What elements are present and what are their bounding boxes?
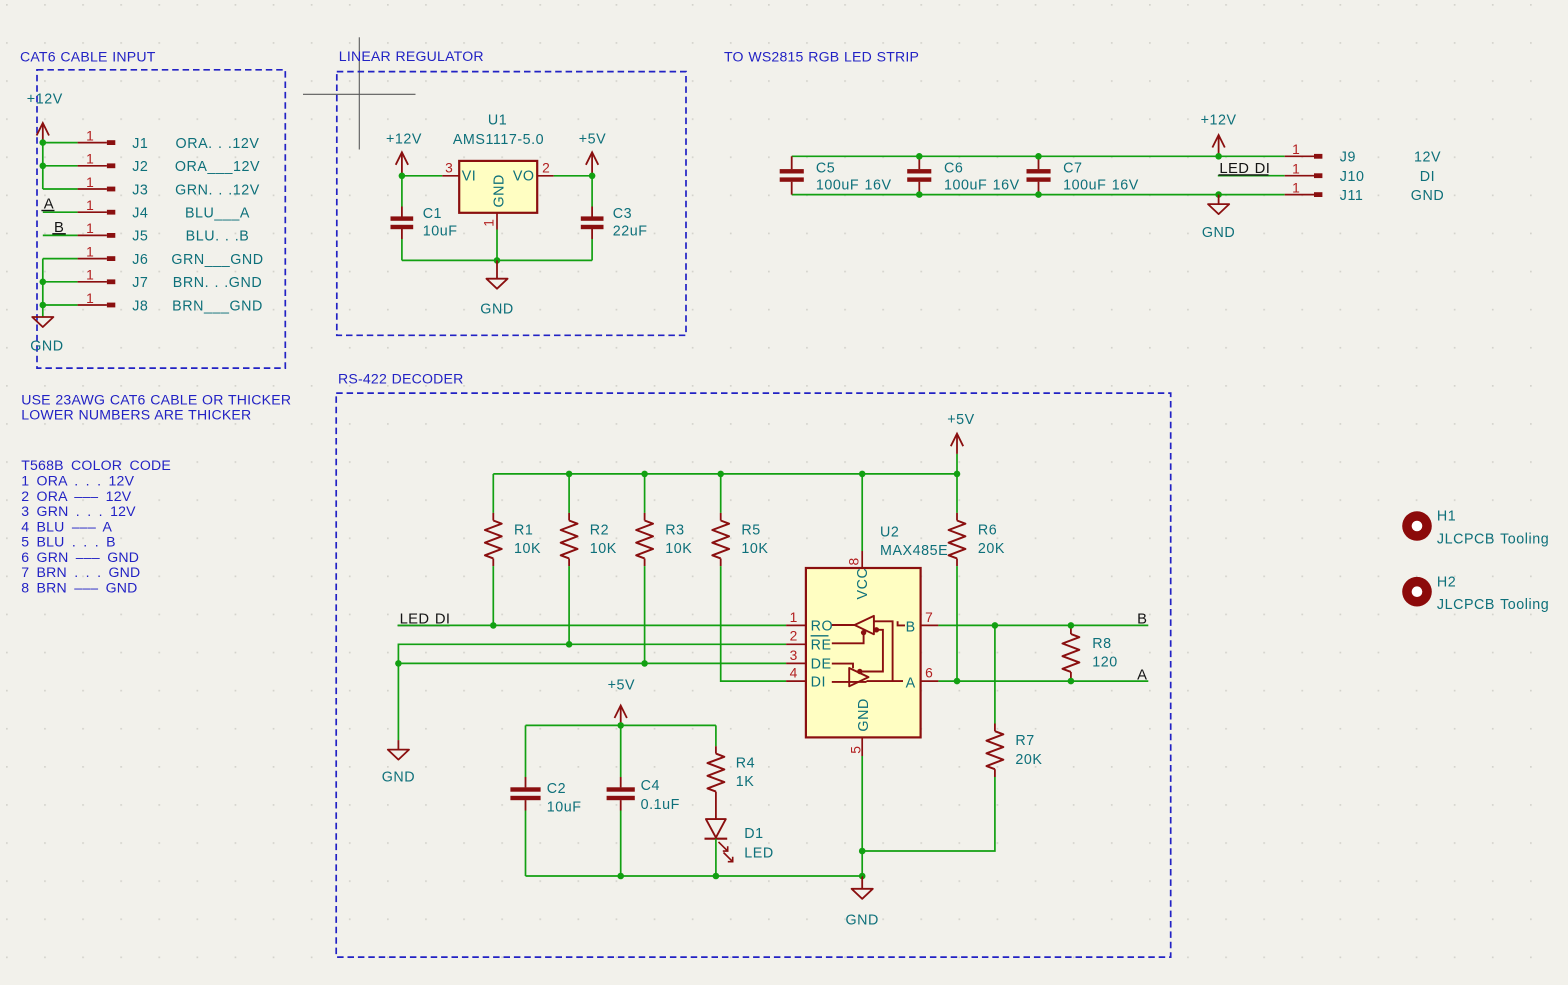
capacitor C2 bbox=[510, 777, 540, 811]
capacitor C6 bbox=[907, 156, 931, 194]
junction bbox=[566, 641, 573, 648]
junction bbox=[494, 257, 501, 264]
wire R6 top lead bbox=[956, 474, 958, 513]
svg-text:GRN. . .12V: GRN. . .12V bbox=[175, 182, 260, 198]
svg-text:A: A bbox=[1137, 667, 1147, 683]
svg-text:100uF 16V: 100uF 16V bbox=[944, 177, 1020, 193]
svg-text:7: 7 bbox=[925, 610, 933, 625]
wire C1 to bottom bbox=[401, 239, 403, 260]
junction bbox=[859, 848, 866, 855]
svg-text:1: 1 bbox=[86, 198, 94, 213]
power symbol +12V bbox=[396, 152, 408, 176]
wire R6 bottom to A row bbox=[956, 566, 958, 681]
overline on RE bbox=[811, 635, 829, 637]
connector J11 bbox=[1285, 192, 1323, 197]
connector J4 bbox=[78, 210, 116, 215]
capacitor C4 bbox=[607, 777, 635, 811]
power symbol +5V bbox=[951, 434, 963, 474]
mounting hole H2 bbox=[1402, 577, 1432, 607]
pin 1 of U1 bbox=[496, 213, 498, 230]
wire R1 top lead bbox=[492, 474, 494, 513]
wire R3 bottom to DE row bbox=[644, 566, 646, 663]
svg-text:GND: GND bbox=[856, 698, 872, 731]
svg-text:J7: J7 bbox=[132, 275, 148, 291]
wire R1 bottom to RO row bbox=[492, 566, 494, 625]
node A wire bbox=[43, 211, 78, 213]
node B wire bbox=[43, 234, 78, 236]
svg-text:GND: GND bbox=[1202, 225, 1235, 241]
wire VO to +5V bbox=[554, 175, 592, 177]
svg-text:J8: J8 bbox=[132, 298, 148, 314]
junction bbox=[40, 302, 47, 309]
receiver buffer inside U2 bbox=[832, 616, 874, 634]
svg-text:3: 3 bbox=[790, 648, 798, 663]
ground bbox=[486, 260, 507, 288]
pin 3 of U2 DE bbox=[786, 662, 806, 664]
wire C2 branch bbox=[525, 725, 527, 777]
wire bbox=[43, 165, 78, 167]
svg-text:20K: 20K bbox=[1015, 752, 1042, 768]
junction bbox=[641, 471, 648, 478]
svg-text:100uF 16V: 100uF 16V bbox=[1063, 177, 1139, 193]
resistor R5 10K bbox=[712, 513, 729, 566]
svg-text:2: 2 bbox=[542, 160, 550, 175]
resistor R2 10K bbox=[561, 513, 578, 566]
svg-text:R4: R4 bbox=[736, 756, 755, 772]
svg-text:GND: GND bbox=[845, 913, 878, 929]
junction bbox=[954, 678, 961, 685]
junction bbox=[641, 660, 648, 667]
svg-text:GND: GND bbox=[480, 301, 513, 317]
svg-text:4: 4 bbox=[790, 666, 798, 681]
wire B row to R7 bbox=[994, 625, 996, 723]
svg-text:RE: RE bbox=[811, 638, 832, 654]
dashed box RS-422 DECODER bbox=[336, 393, 1170, 957]
wire R3 top lead bbox=[644, 474, 646, 513]
wire D1 to bottom bbox=[715, 839, 717, 876]
ground bbox=[32, 317, 53, 327]
junction bbox=[40, 279, 47, 286]
svg-text:1 ORA . . . 12V: 1 ORA . . . 12V bbox=[21, 473, 134, 489]
svg-text:DI: DI bbox=[1420, 169, 1435, 185]
svg-text:J5: J5 bbox=[132, 229, 148, 245]
junction bbox=[713, 873, 720, 880]
svg-text:D1: D1 bbox=[744, 826, 763, 842]
svg-text:R2: R2 bbox=[590, 523, 609, 539]
svg-text:12V: 12V bbox=[1414, 150, 1441, 166]
svg-text:R1: R1 bbox=[514, 523, 533, 539]
wire VCC from rail bbox=[861, 474, 863, 551]
pin 2 of U1 bbox=[537, 175, 554, 177]
svg-text:120: 120 bbox=[1092, 655, 1118, 671]
svg-text:BLU___A: BLU___A bbox=[185, 206, 250, 222]
svg-text:J2: J2 bbox=[132, 159, 148, 175]
junction bbox=[1035, 153, 1042, 160]
svg-text:1: 1 bbox=[86, 291, 94, 306]
wire C3 to bottom bbox=[591, 239, 593, 260]
cursor crosshair bbox=[303, 37, 416, 149]
wire LED DI to J10 bbox=[1218, 175, 1285, 177]
junction bbox=[717, 471, 724, 478]
svg-text:BRN. . .GND: BRN. . .GND bbox=[173, 275, 262, 291]
svg-text:1: 1 bbox=[790, 610, 798, 625]
capacitor C3 bbox=[581, 207, 604, 240]
pin 3 of U1 bbox=[442, 175, 459, 177]
svg-text:+12V: +12V bbox=[27, 92, 63, 108]
wire bbox=[43, 281, 78, 283]
wire 12V rail bbox=[792, 155, 1285, 157]
wire C4 to bottom bbox=[620, 811, 622, 877]
wire R5 top lead bbox=[720, 474, 722, 513]
junction bbox=[589, 173, 596, 180]
wire R7 bottom to GND net bbox=[862, 777, 995, 851]
resistor R6 20K bbox=[949, 513, 966, 566]
svg-text:J1: J1 bbox=[132, 136, 148, 152]
svg-text:B: B bbox=[1137, 611, 1147, 627]
ground bbox=[1208, 195, 1229, 215]
svg-text:A: A bbox=[906, 675, 916, 691]
capacitor C5 bbox=[780, 156, 804, 194]
svg-text:R6: R6 bbox=[978, 523, 997, 539]
svg-text:C6: C6 bbox=[944, 161, 963, 177]
ground bbox=[852, 876, 873, 899]
svg-text:MAX485E: MAX485E bbox=[880, 543, 948, 559]
mounting hole H1 bbox=[1402, 511, 1432, 541]
svg-text:J3: J3 bbox=[132, 182, 148, 198]
junction bbox=[1215, 153, 1222, 160]
junction bbox=[954, 471, 961, 478]
svg-text:8: 8 bbox=[847, 558, 862, 566]
resistor R1 10K bbox=[485, 513, 502, 566]
svg-text:BRN___GND: BRN___GND bbox=[172, 298, 263, 314]
svg-text:1: 1 bbox=[86, 128, 94, 143]
svg-text:LINEAR REGULATOR: LINEAR REGULATOR bbox=[339, 48, 484, 64]
svg-text:0.1uF: 0.1uF bbox=[641, 797, 680, 813]
svg-text:J10: J10 bbox=[1340, 169, 1365, 185]
wire U1 GND down bbox=[496, 230, 498, 261]
svg-text:VCC: VCC bbox=[855, 568, 871, 600]
svg-text:DE: DE bbox=[811, 657, 832, 673]
junction bbox=[395, 660, 402, 667]
svg-text:C3: C3 bbox=[613, 206, 632, 222]
svg-text:1: 1 bbox=[86, 268, 94, 283]
junction bbox=[40, 139, 47, 146]
wire R2 top lead bbox=[568, 474, 570, 513]
junction bbox=[566, 471, 573, 478]
wire GND rail bbox=[792, 194, 1285, 196]
wire bottom rail of cap bank bbox=[526, 875, 863, 877]
power symbol +5V bbox=[586, 152, 598, 176]
svg-text:3: 3 bbox=[445, 160, 453, 175]
svg-text:DI: DI bbox=[811, 674, 826, 690]
connector J7 bbox=[78, 279, 116, 284]
junction bbox=[1068, 678, 1075, 685]
svg-text:1: 1 bbox=[1292, 180, 1300, 195]
svg-text:J11: J11 bbox=[1340, 188, 1364, 204]
connector J9 bbox=[1285, 154, 1323, 159]
svg-text:+5V: +5V bbox=[608, 678, 636, 694]
junction bbox=[916, 191, 923, 198]
svg-text:C5: C5 bbox=[816, 161, 835, 177]
svg-text:5 BLU . . . B: 5 BLU . . . B bbox=[21, 534, 116, 550]
svg-text:TO WS2815 RGB LED STRIP: TO WS2815 RGB LED STRIP bbox=[724, 49, 919, 65]
svg-text:2: 2 bbox=[790, 629, 798, 644]
wire R4 branch bbox=[715, 725, 717, 746]
connector J6 bbox=[78, 256, 116, 261]
svg-text:RO: RO bbox=[811, 619, 834, 635]
wire +5V top rail of cap bank bbox=[526, 724, 716, 726]
wire R2 bottom to RE row bbox=[568, 566, 570, 644]
wire C3 branch bbox=[591, 176, 593, 207]
svg-text:BLU. . .B: BLU. . .B bbox=[186, 229, 250, 245]
capacitor C1 bbox=[391, 207, 414, 240]
capacitor C7 bbox=[1027, 156, 1051, 194]
svg-text:5: 5 bbox=[849, 746, 864, 754]
junction bbox=[859, 873, 866, 880]
svg-text:JLCPCB Tooling: JLCPCB Tooling bbox=[1437, 597, 1549, 613]
svg-text:1: 1 bbox=[1292, 162, 1300, 177]
dashed box CAT6 CABLE INPUT bbox=[37, 70, 285, 368]
driver buffer inside U2 bbox=[832, 668, 869, 686]
svg-text:R8: R8 bbox=[1092, 636, 1111, 652]
svg-text:+5V: +5V bbox=[579, 132, 607, 148]
svg-text:CAT6 CABLE INPUT: CAT6 CABLE INPUT bbox=[20, 49, 156, 65]
svg-text:GRN___GND: GRN___GND bbox=[171, 252, 263, 268]
junction bbox=[1215, 191, 1222, 198]
connector J2 bbox=[78, 163, 116, 168]
ground bbox=[388, 740, 409, 760]
svg-text:100uF 16V: 100uF 16V bbox=[816, 177, 892, 193]
wire DE row bbox=[398, 662, 786, 664]
svg-text:+12V: +12V bbox=[1201, 113, 1237, 129]
junction bbox=[1035, 191, 1042, 198]
svg-text:1: 1 bbox=[86, 244, 94, 259]
svg-text:GND: GND bbox=[492, 174, 508, 207]
junction bbox=[916, 153, 923, 160]
svg-text:+5V: +5V bbox=[947, 412, 975, 428]
junction bbox=[40, 163, 47, 170]
svg-text:10K: 10K bbox=[590, 541, 617, 557]
junction bbox=[992, 622, 999, 629]
junction bbox=[859, 471, 866, 478]
svg-text:C7: C7 bbox=[1063, 161, 1082, 177]
svg-text:USE 23AWG CAT6 CABLE OR THICKE: USE 23AWG CAT6 CABLE OR THICKER bbox=[21, 391, 291, 407]
svg-text:VI: VI bbox=[462, 169, 477, 185]
resistor R7 20K bbox=[987, 724, 1004, 778]
wire U2 GND down bbox=[861, 756, 863, 876]
junction bbox=[399, 173, 406, 180]
wire B row bbox=[938, 624, 1148, 626]
dashed box LINEAR REGULATOR bbox=[337, 72, 686, 336]
svg-text:10K: 10K bbox=[514, 541, 541, 557]
svg-text:R7: R7 bbox=[1015, 733, 1034, 749]
svg-text:U1: U1 bbox=[488, 112, 507, 128]
wire bbox=[43, 142, 78, 144]
wire R4 to D1 bbox=[715, 799, 717, 819]
svg-text:C4: C4 bbox=[641, 778, 660, 794]
power symbol +12V bbox=[37, 123, 49, 143]
svg-text:1: 1 bbox=[1292, 142, 1300, 157]
svg-text:J4: J4 bbox=[132, 206, 148, 222]
svg-text:T568B COLOR CODE: T568B COLOR CODE bbox=[21, 457, 171, 473]
svg-text:LED: LED bbox=[744, 846, 773, 862]
svg-text:+12V: +12V bbox=[386, 132, 422, 148]
svg-text:ORA___12V: ORA___12V bbox=[175, 159, 260, 175]
connector J8 bbox=[78, 303, 116, 308]
svg-text:R3: R3 bbox=[665, 523, 684, 539]
svg-text:U2: U2 bbox=[880, 525, 899, 541]
svg-text:7 BRN . . . GND: 7 BRN . . . GND bbox=[21, 564, 140, 580]
svg-text:AMS1117-5.0: AMS1117-5.0 bbox=[453, 132, 544, 148]
wire +12V rail to J3 bbox=[42, 143, 44, 189]
svg-text:RS-422 DECODER: RS-422 DECODER bbox=[338, 371, 463, 387]
pin 7 of U2 B bbox=[921, 624, 939, 626]
svg-text:R5: R5 bbox=[741, 523, 760, 539]
wire bbox=[43, 188, 78, 190]
connector J3 bbox=[78, 187, 116, 192]
wire bbox=[43, 258, 78, 260]
svg-text:H1: H1 bbox=[1437, 509, 1456, 525]
wire +5V top rail bbox=[493, 473, 957, 475]
wire RE row bbox=[398, 644, 786, 740]
junction bbox=[617, 722, 624, 729]
connector J1 bbox=[78, 140, 116, 145]
svg-text:3 GRN . . . 12V: 3 GRN . . . 12V bbox=[21, 503, 136, 519]
svg-text:J6: J6 bbox=[132, 252, 148, 268]
wire C1 branch bbox=[401, 176, 403, 207]
svg-text:1: 1 bbox=[86, 175, 94, 190]
svg-text:C2: C2 bbox=[547, 781, 566, 797]
svg-text:B: B bbox=[906, 619, 916, 635]
junction bbox=[1068, 622, 1075, 629]
svg-text:C1: C1 bbox=[423, 206, 442, 222]
wire +12V to VI bbox=[402, 175, 442, 177]
pin 8 of U2 VCC bbox=[861, 551, 863, 568]
wire bbox=[43, 304, 78, 306]
regulator U1 body bbox=[459, 161, 537, 213]
power symbol +12V bbox=[1212, 135, 1224, 156]
pin 2 of U2 RE bbox=[786, 643, 806, 645]
connector J10 bbox=[1285, 173, 1323, 178]
resistor R3 10K bbox=[636, 513, 653, 566]
svg-text:8 BRN ––– GND: 8 BRN ––– GND bbox=[21, 579, 137, 595]
pin 6 of U2 A bbox=[921, 680, 939, 682]
svg-text:1K: 1K bbox=[736, 774, 755, 790]
svg-text:10K: 10K bbox=[665, 541, 692, 557]
svg-text:LOWER NUMBERS ARE THICKER: LOWER NUMBERS ARE THICKER bbox=[21, 407, 251, 423]
junction bbox=[490, 622, 497, 629]
internal wiring of U2 bbox=[832, 621, 905, 681]
svg-text:22uF: 22uF bbox=[613, 223, 648, 239]
svg-text:ORA. . .12V: ORA. . .12V bbox=[176, 136, 260, 152]
resistor R4 1K bbox=[708, 746, 725, 799]
svg-text:H2: H2 bbox=[1437, 574, 1456, 590]
svg-text:1: 1 bbox=[86, 152, 94, 167]
svg-text:10uF: 10uF bbox=[547, 799, 582, 815]
svg-text:20K: 20K bbox=[978, 541, 1005, 557]
wire C2 to bottom bbox=[525, 811, 527, 877]
power symbol +5V bbox=[615, 706, 627, 726]
pin 4 of U2 DI bbox=[786, 680, 806, 682]
svg-text:J9: J9 bbox=[1340, 150, 1356, 166]
wire bottom rail bbox=[402, 259, 592, 261]
svg-text:VO: VO bbox=[513, 169, 535, 185]
svg-text:10K: 10K bbox=[741, 541, 768, 557]
junction bbox=[617, 873, 624, 880]
wire A row bbox=[938, 680, 1148, 682]
svg-text:1: 1 bbox=[86, 221, 94, 236]
led D1 bbox=[705, 819, 733, 862]
svg-text:GND: GND bbox=[1411, 188, 1444, 204]
resistor R8 120 bbox=[1063, 627, 1080, 679]
svg-text:6: 6 bbox=[925, 666, 933, 681]
pin 1 of U2 RO bbox=[786, 624, 806, 626]
wire R5 bottom to DI row bbox=[721, 566, 786, 681]
wire J6 rail to GND bbox=[42, 259, 44, 317]
svg-text:1: 1 bbox=[481, 219, 496, 227]
connector J5 bbox=[78, 233, 116, 238]
svg-text:10uF: 10uF bbox=[423, 223, 458, 239]
svg-text:2 ORA ––– 12V: 2 ORA ––– 12V bbox=[21, 488, 132, 504]
svg-text:6 GRN ––– GND: 6 GRN ––– GND bbox=[21, 549, 139, 565]
pin 5 of U2 GND bbox=[861, 737, 863, 756]
wire C4 branch bbox=[620, 725, 622, 777]
ic U2 MAX485E body bbox=[806, 568, 921, 737]
svg-text:4 BLU ––– A: 4 BLU ––– A bbox=[21, 518, 112, 534]
svg-text:GND: GND bbox=[30, 338, 63, 354]
svg-text:GND: GND bbox=[382, 770, 415, 786]
svg-text:JLCPCB Tooling: JLCPCB Tooling bbox=[1437, 531, 1549, 547]
wire LED DI to pin RO bbox=[398, 624, 786, 626]
